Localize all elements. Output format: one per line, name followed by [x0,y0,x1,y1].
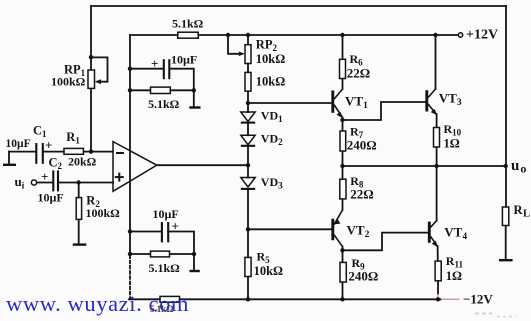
wire rail to RP2 top [247,35,249,45]
svg-text:−12V: −12V [463,292,493,307]
svg-text:22Ω: 22Ω [347,65,370,80]
wire bottom network ground stub [193,254,195,270]
node RP1 wiper tap [89,55,93,59]
svg-text:100kΩ: 100kΩ [86,206,121,220]
resistor R9 body [340,262,346,282]
svg-text:R5: R5 [257,250,271,266]
svg-text:R1: R1 [66,130,80,146]
wire bottom network resistor right [170,253,195,255]
wire op-amp output [157,164,248,166]
wire diode bottom to VT2 base [248,228,331,230]
svg-text:C2: C2 [49,156,63,172]
resistor R5 body [245,257,251,276]
wire negative rail faded pink to -12V [441,298,460,300]
node top network ground junction [192,88,196,92]
wire negative rail right of 5.1k [180,298,442,300]
wire C1 to R1 [43,151,64,153]
node R1 to RP1 junction [89,149,93,153]
node bias resistor bottom junction [128,252,132,256]
resistor R1 body [64,148,83,154]
svg-text:uo: uo [511,158,526,176]
capacitor C1 plates [36,143,43,164]
capacitor 10uF bottom network plates [162,222,168,242]
transistor VT4 NPN [429,221,437,247]
diode VD1 [241,112,255,123]
svg-text:100kΩ: 100kΩ [51,75,86,89]
wire VT4 emitter to R11 top [437,246,439,261]
potentiometer RP1 body [88,70,95,88]
wire negative rail left of 5.1k [129,298,160,300]
wire bottom network cap left [130,231,161,233]
node VD3 VT2 base junction [246,227,250,231]
terminal +12V circle [458,33,462,37]
wire R9 bottom to negative rail [342,282,344,299]
svg-text:VT2: VT2 [347,222,370,240]
wire VT1 emitter to VT3 base step [343,102,426,120]
node bias cap top junction [128,67,132,71]
op-amp minus sign [116,152,124,154]
wire VD3 cathode to R5 top [247,189,249,257]
wire R2 top [78,183,80,198]
node uo RL junction [504,164,508,168]
wire rail to VT3 collector [435,35,437,89]
node bias resistor top junction [128,88,132,92]
wire VD2 cathode to VD3 anode [247,146,249,178]
diode VD3 [241,178,255,189]
svg-text:VD3: VD3 [261,175,283,191]
svg-text:1Ω: 1Ω [446,269,462,283]
svg-text:10µF: 10µF [171,53,197,67]
wire R11 to rail faded [437,294,439,299]
wire 10k fixed to VD1 anode [247,91,249,112]
svg-text:10µF: 10µF [38,191,64,205]
wire RP2 bottom to VT1 base [248,102,331,104]
node C2 to R2 junction [77,180,81,184]
wire top network ground stub [193,90,195,106]
wire RP2 to 10k fixed [247,64,249,73]
wire C1 left [9,151,36,153]
svg-text:5.1kΩ: 5.1kΩ [172,17,204,31]
ground bottom network [190,270,200,272]
diode VD2 [241,135,255,146]
node rail RP2 junction [246,33,250,37]
wire VD1 cathode to VD2 anode [247,123,249,136]
node rail VT3 junction [433,33,437,37]
wire +12V rail right of 5.1k [198,34,458,36]
node R7 R8 uo junction [340,164,344,168]
node op-amp output junction [246,163,250,167]
wire top network cap right [170,69,194,91]
svg-text:22Ω: 22Ω [350,186,373,201]
wire VT2 collector to VT4 base step [343,233,429,251]
resistor R11 body [435,261,441,281]
wire R2 bottom to ground [78,219,80,244]
svg-text:+: + [41,169,48,184]
potentiometer RP1 wiper arrow [95,79,101,84]
svg-text:R11: R11 [446,254,464,270]
node rail RP2 wiper junction [226,33,230,37]
wire top network resistor right [170,89,194,91]
wire RL bottom to ground [505,226,507,261]
wire bias column x=130 [129,35,131,254]
wire R8 bottom to VT2 emitter [342,199,344,210]
svg-text:VT4: VT4 [444,225,467,243]
ground C1 [3,164,16,166]
op-amp U1 triangle [113,142,157,192]
resistor 5.1k bottom network body [151,251,170,257]
svg-text:240Ω: 240Ω [347,138,377,153]
wire RP1 column bottom [90,88,92,151]
svg-text:VD2: VD2 [261,132,283,148]
svg-text:VT1: VT1 [345,94,368,112]
wire uo line [343,165,506,167]
wire R11 bottom [437,281,439,294]
ground R2 [73,243,87,245]
svg-text:R10: R10 [444,122,462,138]
wire right output rail [505,6,507,207]
svg-text:+12V: +12V [466,28,498,43]
wire +12V rail left [130,34,178,36]
resistor R7 body [340,131,346,151]
resistor R10 body [434,128,440,148]
node VT1 emitter junction [340,118,344,122]
node rail R6 junction [340,33,344,37]
resistor RL body [502,207,508,226]
wire bottom network cap right [168,232,194,255]
svg-text:www. wuyazi. com: www. wuyazi. com [6,291,189,316]
wire rail to R6 top [342,35,344,59]
svg-text:20kΩ: 20kΩ [68,154,97,168]
resistor R2 body [76,198,81,220]
ground RL [499,259,513,261]
wire R7 bottom to R8 top [342,151,344,179]
wire uo node to VT4 collector [436,166,438,221]
node R11 negative rail junction [436,297,440,301]
node R10 VT4 uo junction [434,164,438,168]
wire bottom network resistor left [130,253,151,255]
ground top network [189,106,200,108]
wire RP2 wiper feed [228,35,240,54]
wire VT2 collector to R9 top [342,247,344,263]
svg-text:VD1: VD1 [261,109,283,125]
svg-text:VT3: VT3 [439,90,462,108]
potentiometer RP2 wiper arrow [239,52,245,57]
node VD1 VT1 base junction [246,101,250,105]
transistor VT2 PNP [333,210,343,247]
wire R10 bottom to uo node [436,147,438,166]
node R5 negative rail junction [246,297,250,301]
node bias cap bottom junction [128,229,132,233]
capacitor C2 plates [53,170,58,191]
resistor 10k fixed below RP2 body [245,72,251,91]
node bottom network ground junction [192,252,196,256]
terminal ui circle [31,180,36,185]
transistor VT3 NPN [427,89,437,115]
watermark remnant pink dashes bottom right [475,313,492,315]
capacitor 10uF top network plates [164,59,170,79]
wire top feedback rail [91,5,506,7]
wire RP1 wiper loop [91,57,108,81]
wire VT1 emitter to R7 top [342,118,344,132]
resistor R6 body [340,59,346,78]
svg-text:1Ω: 1Ω [444,137,460,151]
svg-text:10µF: 10µF [6,138,31,150]
transistor VT1 NPN [333,89,343,118]
resistor 5.1k top network body [151,87,171,93]
wire top network resistor left [130,89,151,91]
svg-text:240Ω: 240Ω [348,268,378,283]
svg-text:RL: RL [514,203,531,220]
svg-text:+: + [45,138,52,153]
svg-text:10kΩ: 10kΩ [256,75,285,89]
svg-text:+: + [172,219,179,234]
resistor 5.1k bottom rail body [160,296,180,302]
wire R5 bottom to negative rail [247,277,249,300]
wire VT3 emitter to R10 top [436,114,438,128]
svg-text:ui: ui [15,174,25,191]
potentiometer RP2 body [245,45,251,64]
resistor R8 body [340,179,346,199]
wire C2 to op-amp noninverting input [59,182,114,184]
wire R6 bottom to VT1 collector [342,79,344,90]
op-amp plus sign [115,173,124,182]
wire bias column dashed to bottom rail [129,256,131,299]
wire R1 to op-amp inverting input [83,151,113,153]
svg-text:5.1kΩ: 5.1kΩ [148,97,180,111]
svg-text:5.1kΩ: 5.1kΩ [149,261,181,275]
node VT2 collector junction [340,248,344,252]
node R9 negative rail junction [340,297,344,301]
svg-text:RP2: RP2 [256,37,278,53]
svg-text:10kΩ: 10kΩ [256,52,285,66]
svg-text:10kΩ: 10kΩ [254,264,283,278]
resistor 5.1k top rail body [178,32,198,38]
wire C1 ground stub [8,152,10,164]
wire RP1 column top [90,6,92,70]
svg-text:+: + [151,56,158,71]
wire top network cap left [130,68,163,70]
wire ui terminal to C2 [37,182,53,184]
